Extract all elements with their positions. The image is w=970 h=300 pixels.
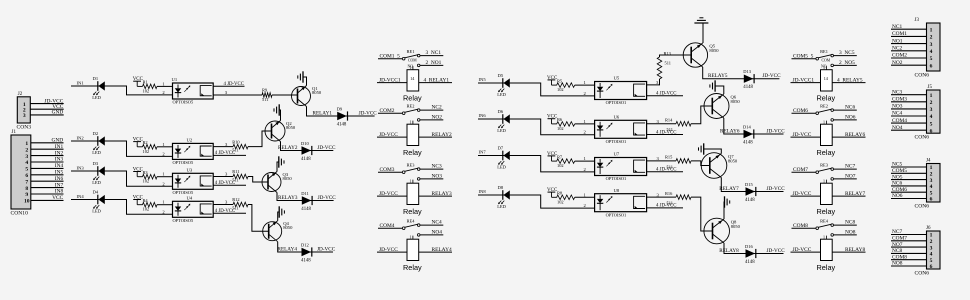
svg-text:4 JD-VCC: 4 JD-VCC	[215, 209, 235, 214]
op-amp U3 optocoupler OPTOISO5	[173, 168, 214, 195]
svg-text:D7: D7	[498, 145, 504, 150]
wire JD-VCC net channel 3	[318, 195, 337, 201]
svg-text:NC8: NC8	[845, 220, 855, 226]
wire Q2 collector to ground	[279, 110, 280, 121]
svg-text:JD-VCC: JD-VCC	[767, 128, 786, 134]
svg-text:4148: 4148	[301, 157, 311, 162]
relay caption	[817, 207, 836, 216]
svg-text:COM: COM	[408, 59, 417, 63]
relay RE1 label	[820, 49, 828, 54]
svg-text:COM: COM	[822, 59, 831, 63]
diode D16 flyback	[745, 244, 756, 265]
svg-text:1: 1	[823, 178, 825, 183]
wire IN6 input net	[478, 113, 595, 135]
svg-text:2: 2	[930, 35, 933, 41]
svg-text:102: 102	[557, 163, 564, 168]
wire RELAY7 net from Q7	[719, 178, 783, 192]
relay coil RELAY6	[821, 119, 833, 145]
svg-text:LED: LED	[497, 204, 506, 209]
wire pin4 JD-VCC net U7	[647, 168, 683, 173]
svg-text:CON3: CON3	[17, 125, 32, 131]
svg-text:2: 2	[930, 100, 933, 106]
diode D1 input LED	[92, 76, 105, 100]
svg-text:COM4: COM4	[892, 118, 907, 124]
wire Q6 collector to ground	[715, 86, 723, 94]
svg-text:1: 1	[823, 234, 825, 239]
svg-text:R15: R15	[665, 155, 673, 160]
wire JD-VCC net channel 4	[317, 246, 336, 252]
svg-text:IN7: IN7	[479, 150, 487, 155]
diode D13 flyback	[743, 69, 754, 90]
svg-text:RELAY7: RELAY7	[719, 186, 739, 192]
svg-text:1: 1	[930, 93, 933, 99]
wire R10 to Q2 base	[248, 131, 272, 147]
svg-text:LED: LED	[92, 150, 101, 155]
wire R14 to Q6 base	[691, 106, 712, 124]
relay contact NC8	[831, 220, 857, 227]
svg-text:4: 4	[25, 160, 28, 166]
svg-text:R12: R12	[232, 197, 239, 202]
svg-text:1: 1	[823, 65, 825, 70]
svg-text:Relay: Relay	[817, 263, 836, 272]
op-amp U5 optocoupler OPTOISO1	[595, 76, 647, 105]
svg-text:NO4: NO4	[892, 125, 903, 131]
svg-text:JD-VCC: JD-VCC	[359, 110, 378, 116]
svg-text:NC2: NC2	[892, 46, 902, 52]
wire RELAY2 net from Q2	[278, 142, 333, 151]
svg-text:CON6: CON6	[915, 135, 930, 141]
svg-text:RELAY3: RELAY3	[278, 195, 298, 201]
svg-text:GND: GND	[52, 138, 64, 144]
svg-text:1: 1	[930, 233, 933, 239]
wire IN1 input net	[71, 81, 173, 95]
wire pin3 U6 to R14	[647, 119, 676, 124]
wire JD-VCC to relay coil 2	[377, 132, 407, 138]
resistor R6	[557, 117, 595, 131]
svg-text:OPTOISO1: OPTOISO1	[606, 176, 627, 181]
svg-text:NC3: NC3	[432, 164, 442, 170]
relay contact COM6	[792, 108, 832, 114]
connector J3 name	[915, 72, 930, 78]
diode D3 input LED	[92, 161, 105, 185]
wire JD-VCC to relay coil 1	[377, 77, 407, 83]
connector J2 body	[17, 97, 30, 123]
svg-text:6: 6	[930, 128, 933, 134]
svg-text:J6: J6	[926, 226, 931, 231]
svg-text:JD-VCC: JD-VCC	[767, 248, 786, 254]
connector J2 designator	[18, 92, 23, 97]
svg-text:IN5: IN5	[479, 77, 487, 82]
resistor R3	[143, 170, 173, 184]
relay contact NO8	[831, 230, 857, 237]
relay contact NO7	[831, 174, 857, 181]
svg-text:3: 3	[930, 178, 933, 184]
relay coil RELAY1	[407, 65, 419, 91]
resistor R8	[557, 191, 595, 205]
power VCC channel 4	[133, 195, 144, 204]
svg-text:OPTOISO5: OPTOISO5	[173, 160, 194, 165]
wire RELAY3 from coil	[419, 191, 452, 197]
svg-text:RELAY7: RELAY7	[845, 191, 865, 197]
svg-text:U8: U8	[614, 188, 620, 193]
svg-text:U2: U2	[187, 138, 193, 143]
svg-text:RELAY6: RELAY6	[845, 132, 865, 138]
power VCC channel 6	[547, 115, 558, 124]
connector J6 designator	[926, 226, 931, 231]
power VCC channel 2	[133, 138, 144, 147]
svg-text:RE2: RE2	[407, 104, 415, 109]
svg-text:D2: D2	[93, 131, 99, 136]
relay caption	[817, 148, 836, 157]
relay caption	[403, 93, 422, 102]
svg-text:OPTOISO1: OPTOISO1	[606, 139, 627, 144]
svg-text:J5: J5	[928, 85, 933, 90]
svg-text:J3: J3	[915, 18, 920, 23]
relay contact COM7	[792, 167, 832, 174]
pin 2 label U5	[584, 91, 587, 96]
svg-text:IN3: IN3	[55, 157, 64, 163]
connector J1 designator	[12, 130, 17, 135]
resistor R2	[143, 140, 173, 154]
svg-text:1: 1	[823, 119, 825, 124]
svg-text:IN5: IN5	[55, 170, 64, 176]
wire JD-VCC to relay coil 4	[377, 247, 407, 253]
svg-text:RELAY6: RELAY6	[720, 128, 740, 134]
wire RELAY6 net from Q6	[720, 118, 784, 134]
relay contact NO1	[417, 60, 443, 67]
svg-text:NO3: NO3	[892, 104, 903, 110]
svg-text:102: 102	[143, 149, 150, 154]
svg-text:D12: D12	[301, 242, 309, 247]
transistor Q2	[265, 121, 296, 142]
svg-text:8: 8	[25, 186, 28, 192]
svg-text:CON10: CON10	[11, 211, 29, 217]
resistor R16	[665, 191, 691, 206]
ground Q7	[699, 143, 704, 154]
svg-text:3 NC5: 3 NC5	[839, 50, 855, 56]
wire RELAY4 net from Q4	[278, 242, 334, 253]
wire RELAY6 from coil	[832, 132, 865, 138]
svg-text:NO8: NO8	[892, 261, 903, 267]
svg-text:D6: D6	[498, 109, 504, 114]
connector J5 name	[915, 135, 930, 141]
wire RELAY1 net from Q1	[307, 107, 375, 117]
svg-text:4 JD-VCC: 4 JD-VCC	[656, 204, 676, 209]
svg-text:D3: D3	[93, 161, 99, 166]
diode D7 input LED	[497, 145, 510, 169]
svg-text:5: 5	[25, 167, 28, 173]
wire pin3 U3 to R11	[213, 172, 233, 177]
svg-text:3: 3	[25, 154, 28, 160]
svg-text:COM5: COM5	[892, 168, 907, 174]
svg-text:IN2: IN2	[55, 150, 64, 156]
diode D15 flyback	[745, 182, 756, 203]
svg-text:NO7: NO7	[892, 242, 903, 248]
relay contact NC5	[831, 50, 857, 57]
diode D4 input LED	[92, 189, 105, 213]
svg-text:COM1: COM1	[892, 31, 907, 37]
relay contact NC1	[417, 50, 443, 57]
svg-text:1: 1	[410, 178, 412, 183]
wire pin4 JD-VCC net U3	[213, 181, 246, 186]
svg-text:Relay: Relay	[403, 148, 422, 157]
wire IN3 input net	[71, 166, 173, 187]
connector J5 pin numbers	[930, 93, 933, 134]
svg-text:IN6: IN6	[55, 176, 64, 182]
svg-text:1: 1	[410, 119, 412, 124]
svg-text:4: 4	[930, 49, 933, 55]
svg-text:D1: D1	[93, 76, 99, 81]
transistor Q3	[262, 172, 292, 193]
svg-text:D11: D11	[301, 191, 309, 196]
wire R15 to Q7 base	[691, 161, 710, 166]
svg-text:COM2: COM2	[892, 53, 907, 59]
pin 2 label U7	[584, 167, 587, 172]
pin 2 label U8	[584, 203, 587, 208]
wire R16 to Q8 base	[691, 197, 713, 231]
svg-text:6: 6	[930, 63, 933, 69]
svg-text:4 JD-VCC: 4 JD-VCC	[215, 151, 235, 156]
relay coil RELAY2	[407, 119, 419, 145]
svg-text:NC6: NC6	[892, 181, 902, 187]
relay caption	[403, 148, 422, 157]
resistor R11	[232, 169, 248, 182]
wire JD-VCC net channel 2	[317, 145, 336, 151]
connector J5 body	[927, 90, 941, 133]
svg-text:IN1: IN1	[77, 81, 85, 86]
svg-text:LED: LED	[92, 180, 101, 185]
svg-text:IN8: IN8	[55, 189, 64, 195]
connector J1 body	[11, 135, 31, 209]
svg-text:RELAY3: RELAY3	[432, 191, 452, 197]
svg-text:RELAY2: RELAY2	[432, 132, 452, 138]
svg-text:D16: D16	[745, 244, 753, 249]
svg-text:8050: 8050	[283, 176, 293, 181]
wire JD-VCC to relay coil 3	[377, 191, 407, 197]
svg-text:NC4: NC4	[892, 111, 902, 117]
svg-text:RE3: RE3	[820, 163, 829, 168]
svg-text:8050: 8050	[286, 125, 296, 130]
svg-text:IN4: IN4	[77, 194, 85, 199]
svg-text:IN4: IN4	[55, 163, 64, 169]
pin 2 label U3	[162, 181, 165, 186]
svg-text:D15: D15	[745, 182, 753, 187]
diode D8 input LED	[497, 185, 510, 209]
svg-text:GND: GND	[52, 110, 64, 116]
svg-text:COM3: COM3	[892, 97, 907, 103]
relay RE2 label	[820, 104, 828, 109]
connector J1 pin wires and labels	[31, 138, 64, 202]
svg-text:4: 4	[930, 114, 933, 120]
wire pin4 JD-VCC net U2	[213, 151, 246, 156]
svg-text:4 JD-VCC: 4 JD-VCC	[656, 168, 676, 173]
relay contact COM3	[378, 167, 418, 174]
svg-text:D10: D10	[301, 141, 309, 146]
svg-text:5: 5	[930, 190, 933, 196]
pin 2 label U1	[162, 90, 165, 95]
svg-text:4148: 4148	[301, 207, 311, 212]
svg-text:J4: J4	[926, 159, 931, 164]
wire JD-VCC to relay coil 6	[791, 132, 821, 138]
wire IN5 input net	[478, 77, 595, 96]
connector J6 name	[915, 270, 930, 276]
svg-text:NC7: NC7	[845, 164, 855, 170]
wire RELAY7 from coil	[832, 191, 865, 197]
wire RELAY1 from coil	[419, 77, 452, 83]
svg-text:RELAY5: RELAY5	[708, 73, 728, 79]
wire IN7 input net	[478, 150, 595, 172]
svg-text:U3: U3	[187, 168, 193, 173]
svg-text:NC7: NC7	[892, 229, 902, 235]
wire JD-VCC net channel 8	[767, 248, 786, 254]
relay RE3 label	[407, 163, 416, 168]
pin 2 label U4	[162, 209, 165, 214]
svg-text:NC3: NC3	[892, 89, 902, 95]
transistor Q7	[701, 153, 738, 179]
resistor R4	[143, 198, 173, 212]
svg-text:RELAY8: RELAY8	[719, 248, 739, 254]
power VCC channel 1	[133, 77, 144, 86]
svg-text:OPTOISO5: OPTOISO5	[173, 190, 194, 195]
svg-text:U4: U4	[187, 196, 193, 201]
svg-text:R11: R11	[232, 169, 239, 174]
resistor R10	[232, 139, 248, 152]
op-amp U2 optocoupler OPTOISO5	[173, 138, 214, 165]
svg-text:3: 3	[23, 113, 26, 119]
relay RE3 label	[820, 163, 829, 168]
svg-text:U5: U5	[614, 76, 620, 81]
svg-text:4 JD-VCC: 4 JD-VCC	[656, 130, 676, 135]
svg-text:8050: 8050	[709, 48, 719, 53]
svg-text:RELAY4: RELAY4	[432, 247, 452, 253]
wire JD-VCC to relay coil 5	[791, 77, 821, 83]
svg-text:3: 3	[930, 107, 933, 113]
svg-text:Relay: Relay	[817, 148, 836, 157]
wire pin4 JD-VCC net U1	[213, 82, 244, 87]
svg-text:NC4: NC4	[432, 220, 442, 226]
svg-text:R16: R16	[665, 191, 673, 196]
connector J3 body	[927, 23, 941, 71]
svg-text:OPTOISO1: OPTOISO1	[606, 100, 627, 105]
diode D12 flyback	[301, 242, 312, 263]
wire R13 to Q5 base	[660, 55, 692, 57]
svg-text:7: 7	[25, 179, 28, 185]
wire R9 to Q1 base	[272, 94, 298, 96]
svg-text:2: 2	[930, 172, 933, 178]
svg-text:IN2: IN2	[77, 136, 85, 141]
wire IN2 input net	[71, 136, 173, 157]
svg-text:8050: 8050	[731, 224, 741, 229]
svg-text:D13: D13	[743, 69, 751, 74]
svg-text:3: 3	[930, 245, 933, 251]
ground Q4	[279, 206, 284, 217]
svg-text:2: 2	[930, 239, 933, 245]
connector J4 body	[927, 164, 941, 203]
svg-text:NO3: NO3	[432, 174, 443, 180]
wire RELAY5 net from Q5	[703, 67, 780, 79]
svg-text:9: 9	[25, 192, 28, 198]
svg-text:IN6: IN6	[479, 113, 487, 118]
svg-text:4: 4	[930, 252, 933, 258]
svg-text:CON6: CON6	[915, 203, 930, 209]
svg-text:J2: J2	[18, 92, 23, 97]
ground Q1	[298, 71, 303, 82]
op-amp U4 optocoupler OPTOISO5	[173, 196, 214, 223]
connector J2 pin numbers	[23, 102, 26, 119]
svg-text:4: 4	[930, 184, 933, 190]
svg-text:1: 1	[410, 65, 412, 70]
diode D6 input LED	[497, 109, 510, 133]
wire RELAY4 from coil	[419, 247, 452, 253]
svg-text:10: 10	[24, 199, 30, 205]
svg-text:RELAY8: RELAY8	[845, 247, 865, 253]
svg-text:4148: 4148	[743, 85, 753, 90]
wire pin4 JD-VCC net U8	[647, 204, 683, 209]
svg-text:4148: 4148	[745, 260, 755, 265]
diode D14 flyback	[743, 124, 754, 145]
svg-text:4148: 4148	[337, 123, 347, 128]
svg-text:6: 6	[930, 264, 933, 270]
wire JD-VCC net channel 6	[767, 128, 786, 134]
connector J4 pin wires and labels	[891, 162, 927, 200]
ground Q6	[710, 80, 715, 91]
svg-text:JD-VCC: JD-VCC	[317, 145, 336, 151]
diode D2 input LED	[92, 131, 105, 155]
svg-text:NO8: NO8	[845, 230, 856, 236]
pin 2 label U6	[584, 130, 587, 135]
wire R12 to Q4 base	[248, 205, 269, 232]
relay contact NC2	[417, 105, 443, 112]
svg-text:D14: D14	[743, 124, 751, 129]
svg-text:NO1: NO1	[892, 38, 903, 44]
wire Q3 collector to ground	[277, 162, 279, 172]
transistor Q4	[263, 221, 293, 242]
svg-text:NO6: NO6	[892, 193, 903, 199]
svg-text:IN8: IN8	[479, 189, 487, 194]
svg-text:4148: 4148	[301, 259, 311, 264]
relay contact NO2	[417, 115, 443, 122]
svg-text:Relay: Relay	[403, 207, 422, 216]
svg-text:VCC: VCC	[52, 195, 63, 201]
svg-text:8050: 8050	[283, 225, 293, 230]
connector J5 pin wires and labels	[891, 89, 927, 130]
wire Q7 collector to ground	[704, 149, 721, 154]
op-amp U8 optocoupler OPTOISO1	[595, 188, 647, 217]
svg-text:NO7: NO7	[845, 174, 856, 180]
wire pin3 U2 to R10	[213, 142, 233, 147]
svg-text:102: 102	[557, 126, 564, 131]
wire RELAY8 from coil	[832, 247, 865, 253]
svg-text:NC5: NC5	[892, 162, 902, 168]
wire pin3 U8 to R16	[647, 192, 676, 197]
svg-text:RE4: RE4	[820, 219, 829, 224]
relay coil RELAY8	[821, 234, 833, 260]
relay coil RELAY5	[821, 65, 833, 91]
svg-text:4148: 4148	[743, 141, 753, 146]
svg-text:NC8: NC8	[892, 248, 902, 254]
ground Q2	[274, 104, 279, 115]
svg-text:U7: U7	[614, 152, 620, 157]
diode D10 flyback	[301, 141, 312, 162]
relay contact COM2	[378, 108, 418, 114]
resistor R12	[232, 197, 248, 210]
svg-text:R14: R14	[665, 117, 673, 122]
wire pin4 JD-VCC net U5	[647, 92, 683, 97]
connector J2 name	[17, 125, 32, 131]
svg-text:R10: R10	[232, 139, 240, 144]
svg-text:LED: LED	[497, 128, 506, 133]
svg-text:NC2: NC2	[432, 105, 442, 111]
